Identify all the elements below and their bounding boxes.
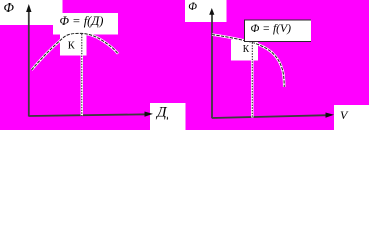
white patch F (right fig, Phi label area) bbox=[185, 0, 227, 22]
D label tail mark bbox=[166, 117, 168, 120]
curve halo (right) bbox=[212, 35, 284, 87]
white patch B (left fig, formula label box) bbox=[53, 13, 118, 35]
svg-text:Φ: Φ bbox=[188, 1, 197, 13]
y-axis (vertical, right) bbox=[211, 14, 213, 118]
dashed vertical line at k (right) bbox=[251, 43, 253, 118]
curve halo (left) bbox=[32, 33, 119, 70]
curve f(V) (right) bbox=[212, 35, 284, 87]
white patch C (left fig, k label box) bbox=[60, 33, 87, 56]
svg-text:Φ: Φ bbox=[4, 0, 15, 15]
x-axis (horizontal) bbox=[29, 114, 147, 116]
x-axis arrowhead bbox=[145, 112, 154, 117]
white patch I (right fig, V-axis label box) bbox=[334, 105, 369, 130]
magenta page background bbox=[0, 0, 369, 130]
dashed vertical halo (left) bbox=[81, 34, 83, 116]
svg-text:Д: Д bbox=[155, 105, 168, 121]
y-axis arrowhead (right) bbox=[209, 8, 214, 15]
bordered label box G: Phi = f(V) bbox=[244, 20, 311, 42]
white patch D (left fig, D-axis label box) bbox=[150, 103, 186, 130]
svg-text:К: К bbox=[68, 40, 76, 52]
y-axis arrowhead bbox=[26, 4, 31, 12]
curve f(D) (left) bbox=[32, 33, 119, 70]
white patch A (left fig, Phi label area) bbox=[0, 0, 63, 25]
y-axis (vertical) bbox=[28, 10, 30, 117]
svg-text:К: К bbox=[243, 44, 250, 55]
white patch H (right fig, k label box) bbox=[231, 40, 258, 61]
x-axis arrowhead (right) bbox=[326, 113, 335, 118]
svg-text:Φ = f(Д): Φ = f(Д) bbox=[60, 14, 104, 28]
dashed vertical halo (right) bbox=[251, 43, 253, 118]
dashed vertical line at max (left) bbox=[81, 34, 83, 116]
x-axis (horizontal, right) bbox=[212, 115, 328, 118]
svg-text:Φ = f(V): Φ = f(V) bbox=[251, 22, 292, 35]
